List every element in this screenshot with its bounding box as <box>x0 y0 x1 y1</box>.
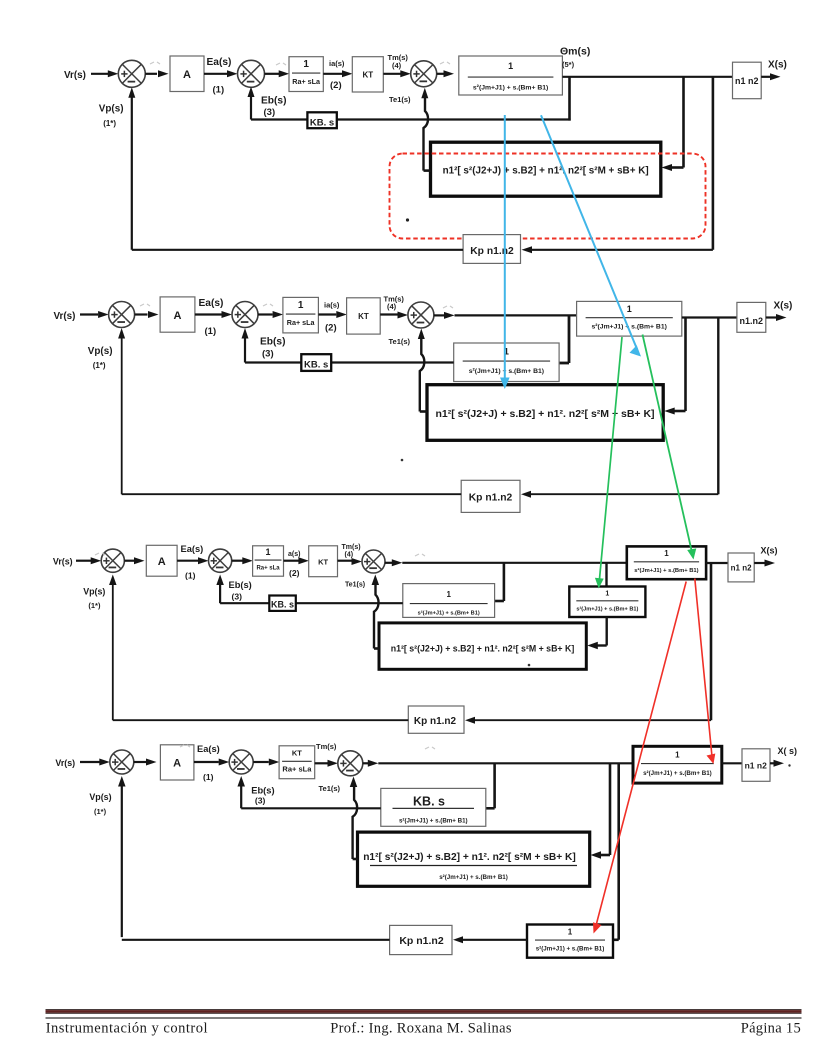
svg-text:1: 1 <box>605 591 609 598</box>
svg-text:Ea(s): Ea(s) <box>199 298 224 309</box>
svg-text:1: 1 <box>508 61 513 71</box>
svg-text:n1²[ s²(J2+J) + s.B2] + n1². n: n1²[ s²(J2+J) + s.B2] + n1². n2²[ s²M + … <box>435 408 654 420</box>
svg-text:Kp n1.n2: Kp n1.n2 <box>470 246 514 257</box>
svg-text:Te1(s): Te1(s) <box>319 784 341 793</box>
svg-text:s²(Jm+J1) + s.(Bm+ B1): s²(Jm+J1) + s.(Bm+ B1) <box>473 85 548 92</box>
svg-text:X(s): X(s) <box>774 300 793 311</box>
svg-text:n1 n2: n1 n2 <box>745 761 767 771</box>
svg-text:Ra+ sLa: Ra+ sLa <box>287 318 316 327</box>
svg-text:s²(Jm+J1) + s.(Bm+ B1): s²(Jm+J1) + s.(Bm+ B1) <box>418 610 480 617</box>
svg-text:1: 1 <box>675 750 680 759</box>
svg-text:ia(s): ia(s) <box>324 300 340 309</box>
svg-text:Eb(s): Eb(s) <box>251 785 274 795</box>
svg-text:n1 n2: n1 n2 <box>735 76 759 86</box>
svg-text:n1²[ s²(J2+J) + s.B2] + n1². n: n1²[ s²(J2+J) + s.B2] + n1². n2²[ s²M + … <box>443 166 649 177</box>
svg-text:Vp(s): Vp(s) <box>83 587 105 597</box>
svg-text:(4): (4) <box>345 552 354 559</box>
svg-text:(1*): (1*) <box>93 361 106 370</box>
svg-text:(2): (2) <box>330 80 342 91</box>
svg-text:KB. s: KB. s <box>310 117 334 128</box>
svg-text:(1*): (1*) <box>94 807 107 816</box>
svg-text:Vr(s): Vr(s) <box>55 758 75 768</box>
svg-text:n1²[ s²(J2+J) + s.B2] + n1². n: n1²[ s²(J2+J) + s.B2] + n1². n2²[ s²M + … <box>391 644 575 654</box>
svg-text:1: 1 <box>627 304 632 314</box>
svg-text:Página 15: Página 15 <box>741 1021 801 1037</box>
svg-text:Instrumentación y control: Instrumentación y control <box>46 1021 208 1037</box>
svg-text:Tm(s): Tm(s) <box>316 742 337 751</box>
svg-text:Eb(s): Eb(s) <box>261 96 286 107</box>
svg-text:a(s): a(s) <box>288 551 300 558</box>
svg-text:Te1(s): Te1(s) <box>389 337 411 346</box>
svg-text:Kp n1.n2: Kp n1.n2 <box>414 716 457 727</box>
svg-text:n1²[ s²(J2+J) + s.B2] + n1². n: n1²[ s²(J2+J) + s.B2] + n1². n2²[ s²M + … <box>363 852 576 863</box>
svg-text:Ea(s): Ea(s) <box>197 744 220 754</box>
svg-text:Te1(s): Te1(s) <box>345 582 365 589</box>
svg-text:(3): (3) <box>255 795 266 805</box>
svg-text:1: 1 <box>664 549 669 558</box>
svg-text:X(s): X(s) <box>768 60 787 71</box>
svg-text:s²(Jm+J1) + s.(Bm+ B1): s²(Jm+J1) + s.(Bm+ B1) <box>576 605 638 612</box>
svg-text:s²(Jm+J1) + s.(Bm+ B1): s²(Jm+J1) + s.(Bm+ B1) <box>399 818 468 825</box>
svg-text:Ra+ sLa: Ra+ sLa <box>282 764 312 773</box>
svg-text:Vr(s): Vr(s) <box>53 557 73 567</box>
svg-text:(1): (1) <box>205 326 217 337</box>
svg-text:n1.n2: n1.n2 <box>740 316 764 326</box>
svg-text:Vr(s): Vr(s) <box>64 70 86 81</box>
svg-text:KT: KT <box>362 71 373 80</box>
svg-text:Prof.: Ing. Roxana M. Salinas: Prof.: Ing. Roxana M. Salinas <box>330 1021 512 1037</box>
svg-text:Vp(s): Vp(s) <box>88 346 113 357</box>
svg-text:ia(s): ia(s) <box>329 59 345 68</box>
svg-text:(2): (2) <box>325 322 337 333</box>
svg-text:(1*): (1*) <box>103 119 116 128</box>
svg-text:A: A <box>174 310 182 322</box>
svg-text:Vp(s): Vp(s) <box>99 104 124 115</box>
svg-text:Ea(s): Ea(s) <box>207 57 232 68</box>
svg-text:s²(Jm+J1) + s.(Bm+ B1): s²(Jm+J1) + s.(Bm+ B1) <box>634 567 698 574</box>
svg-text:(3): (3) <box>232 591 243 601</box>
svg-text:Kp n1.n2: Kp n1.n2 <box>399 935 443 947</box>
svg-text:A: A <box>183 69 191 81</box>
svg-text:(1): (1) <box>213 85 225 96</box>
svg-text:KB. s: KB. s <box>413 795 445 809</box>
svg-text:KT: KT <box>318 558 328 567</box>
svg-text:(3): (3) <box>262 349 274 360</box>
svg-text:n1 n2: n1 n2 <box>731 564 752 573</box>
svg-text:A: A <box>158 556 166 568</box>
svg-text:Ra+ sLa: Ra+ sLa <box>292 77 321 86</box>
svg-text:1: 1 <box>446 590 451 599</box>
svg-text:s²(Jm+J1) + s.(Bm+ B1): s²(Jm+J1) + s.(Bm+ B1) <box>536 945 605 952</box>
svg-text:Ea(s): Ea(s) <box>181 544 204 554</box>
svg-text:s²(Jm+J1) + s.(Bm+ B1): s²(Jm+J1) + s.(Bm+ B1) <box>643 770 712 777</box>
svg-text:KB. s: KB. s <box>271 600 294 610</box>
svg-text:(1*): (1*) <box>88 601 101 610</box>
svg-text:1: 1 <box>303 59 309 70</box>
svg-text:(1): (1) <box>203 772 214 782</box>
svg-text:Θm(s): Θm(s) <box>560 46 590 58</box>
svg-text:KB. s: KB. s <box>304 360 328 371</box>
svg-text:1: 1 <box>568 927 573 936</box>
svg-text:(4): (4) <box>392 61 402 70</box>
svg-text:1: 1 <box>298 300 304 311</box>
svg-text:Eb(s): Eb(s) <box>260 337 285 348</box>
svg-text:(5*): (5*) <box>562 60 575 69</box>
svg-text:X(s): X(s) <box>761 546 778 556</box>
svg-text:(3): (3) <box>264 107 276 118</box>
svg-text:(1): (1) <box>185 571 196 581</box>
svg-text:(2): (2) <box>289 568 300 578</box>
svg-text:Ra+ sLa: Ra+ sLa <box>256 566 280 572</box>
svg-text:Kp n1.n2: Kp n1.n2 <box>469 493 513 504</box>
svg-text:Te1(s): Te1(s) <box>389 95 411 104</box>
svg-text:1: 1 <box>266 547 271 557</box>
svg-text:KT: KT <box>358 312 369 321</box>
svg-text:A: A <box>173 758 181 770</box>
svg-text:X( s): X( s) <box>778 746 798 756</box>
svg-text:Tm(s): Tm(s) <box>342 544 361 551</box>
svg-text:Eb(s): Eb(s) <box>229 580 252 590</box>
svg-text:KT: KT <box>292 749 302 758</box>
svg-text:Vr(s): Vr(s) <box>54 311 76 322</box>
svg-text:s²(Jm+J1) + s.(Bm+ B1): s²(Jm+J1) + s.(Bm+ B1) <box>469 368 544 375</box>
svg-text:s²(Jm+J1) + s.(Bm+ B1): s²(Jm+J1) + s.(Bm+ B1) <box>439 874 508 881</box>
svg-text:Vp(s): Vp(s) <box>89 792 111 802</box>
svg-text:(4): (4) <box>387 302 397 311</box>
